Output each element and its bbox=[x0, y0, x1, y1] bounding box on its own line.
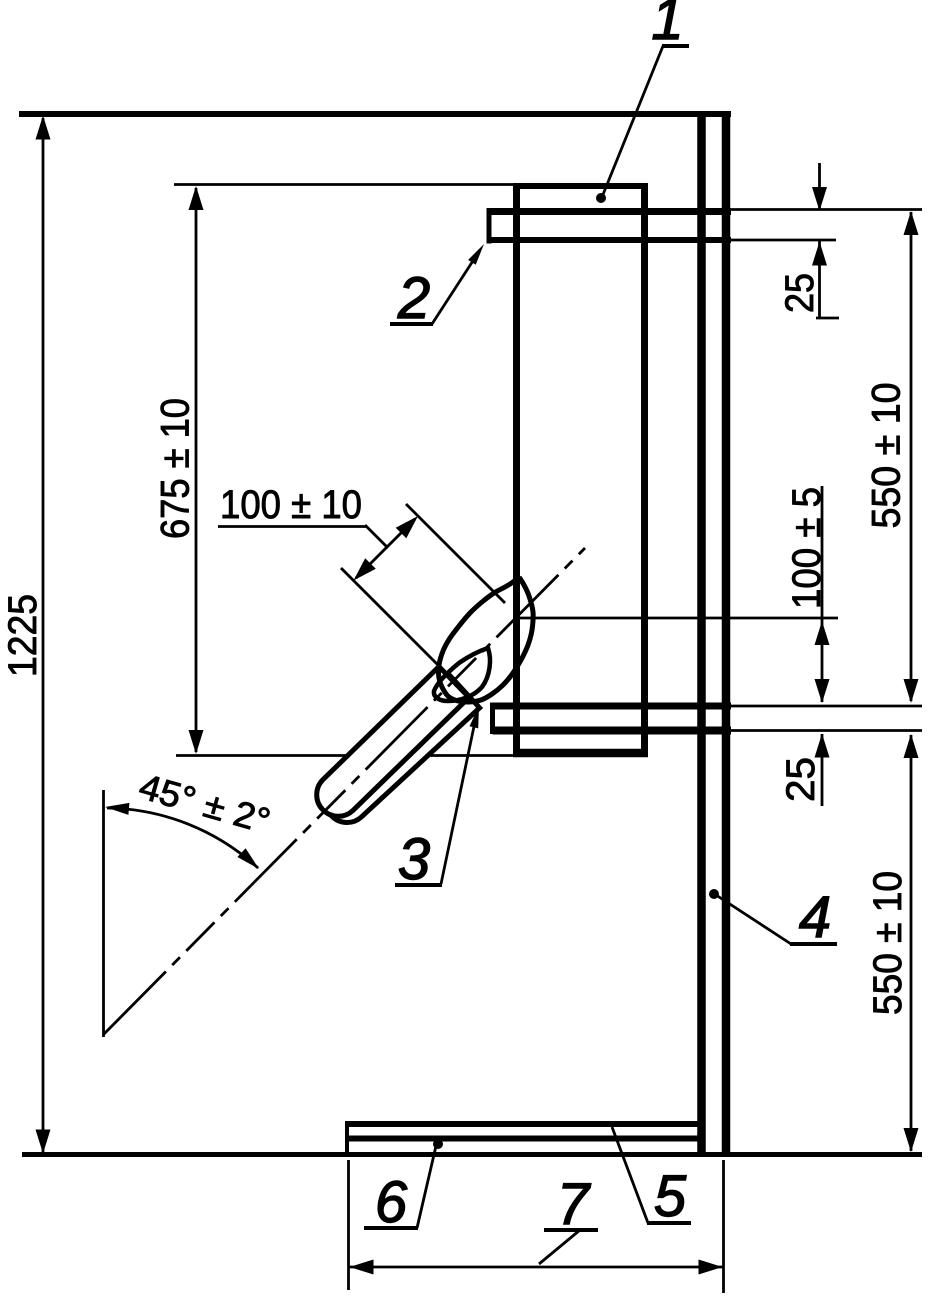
svg-text:100 ± 10: 100 ± 10 bbox=[220, 483, 362, 527]
svg-text:25: 25 bbox=[778, 273, 822, 313]
svg-text:7: 7 bbox=[557, 1172, 592, 1237]
svg-text:550 ± 10: 550 ± 10 bbox=[865, 383, 909, 529]
svg-text:1225: 1225 bbox=[1, 594, 45, 677]
svg-text:2: 2 bbox=[397, 266, 430, 331]
svg-text:5: 5 bbox=[654, 1164, 687, 1229]
svg-text:675 ± 10: 675 ± 10 bbox=[154, 398, 198, 539]
svg-text:550 ± 10: 550 ± 10 bbox=[866, 871, 910, 1015]
svg-text:4: 4 bbox=[799, 885, 831, 950]
svg-text:25: 25 bbox=[779, 757, 823, 802]
svg-text:3: 3 bbox=[398, 827, 430, 892]
svg-text:100 ± 5: 100 ± 5 bbox=[785, 487, 829, 609]
svg-text:6: 6 bbox=[375, 1170, 408, 1235]
